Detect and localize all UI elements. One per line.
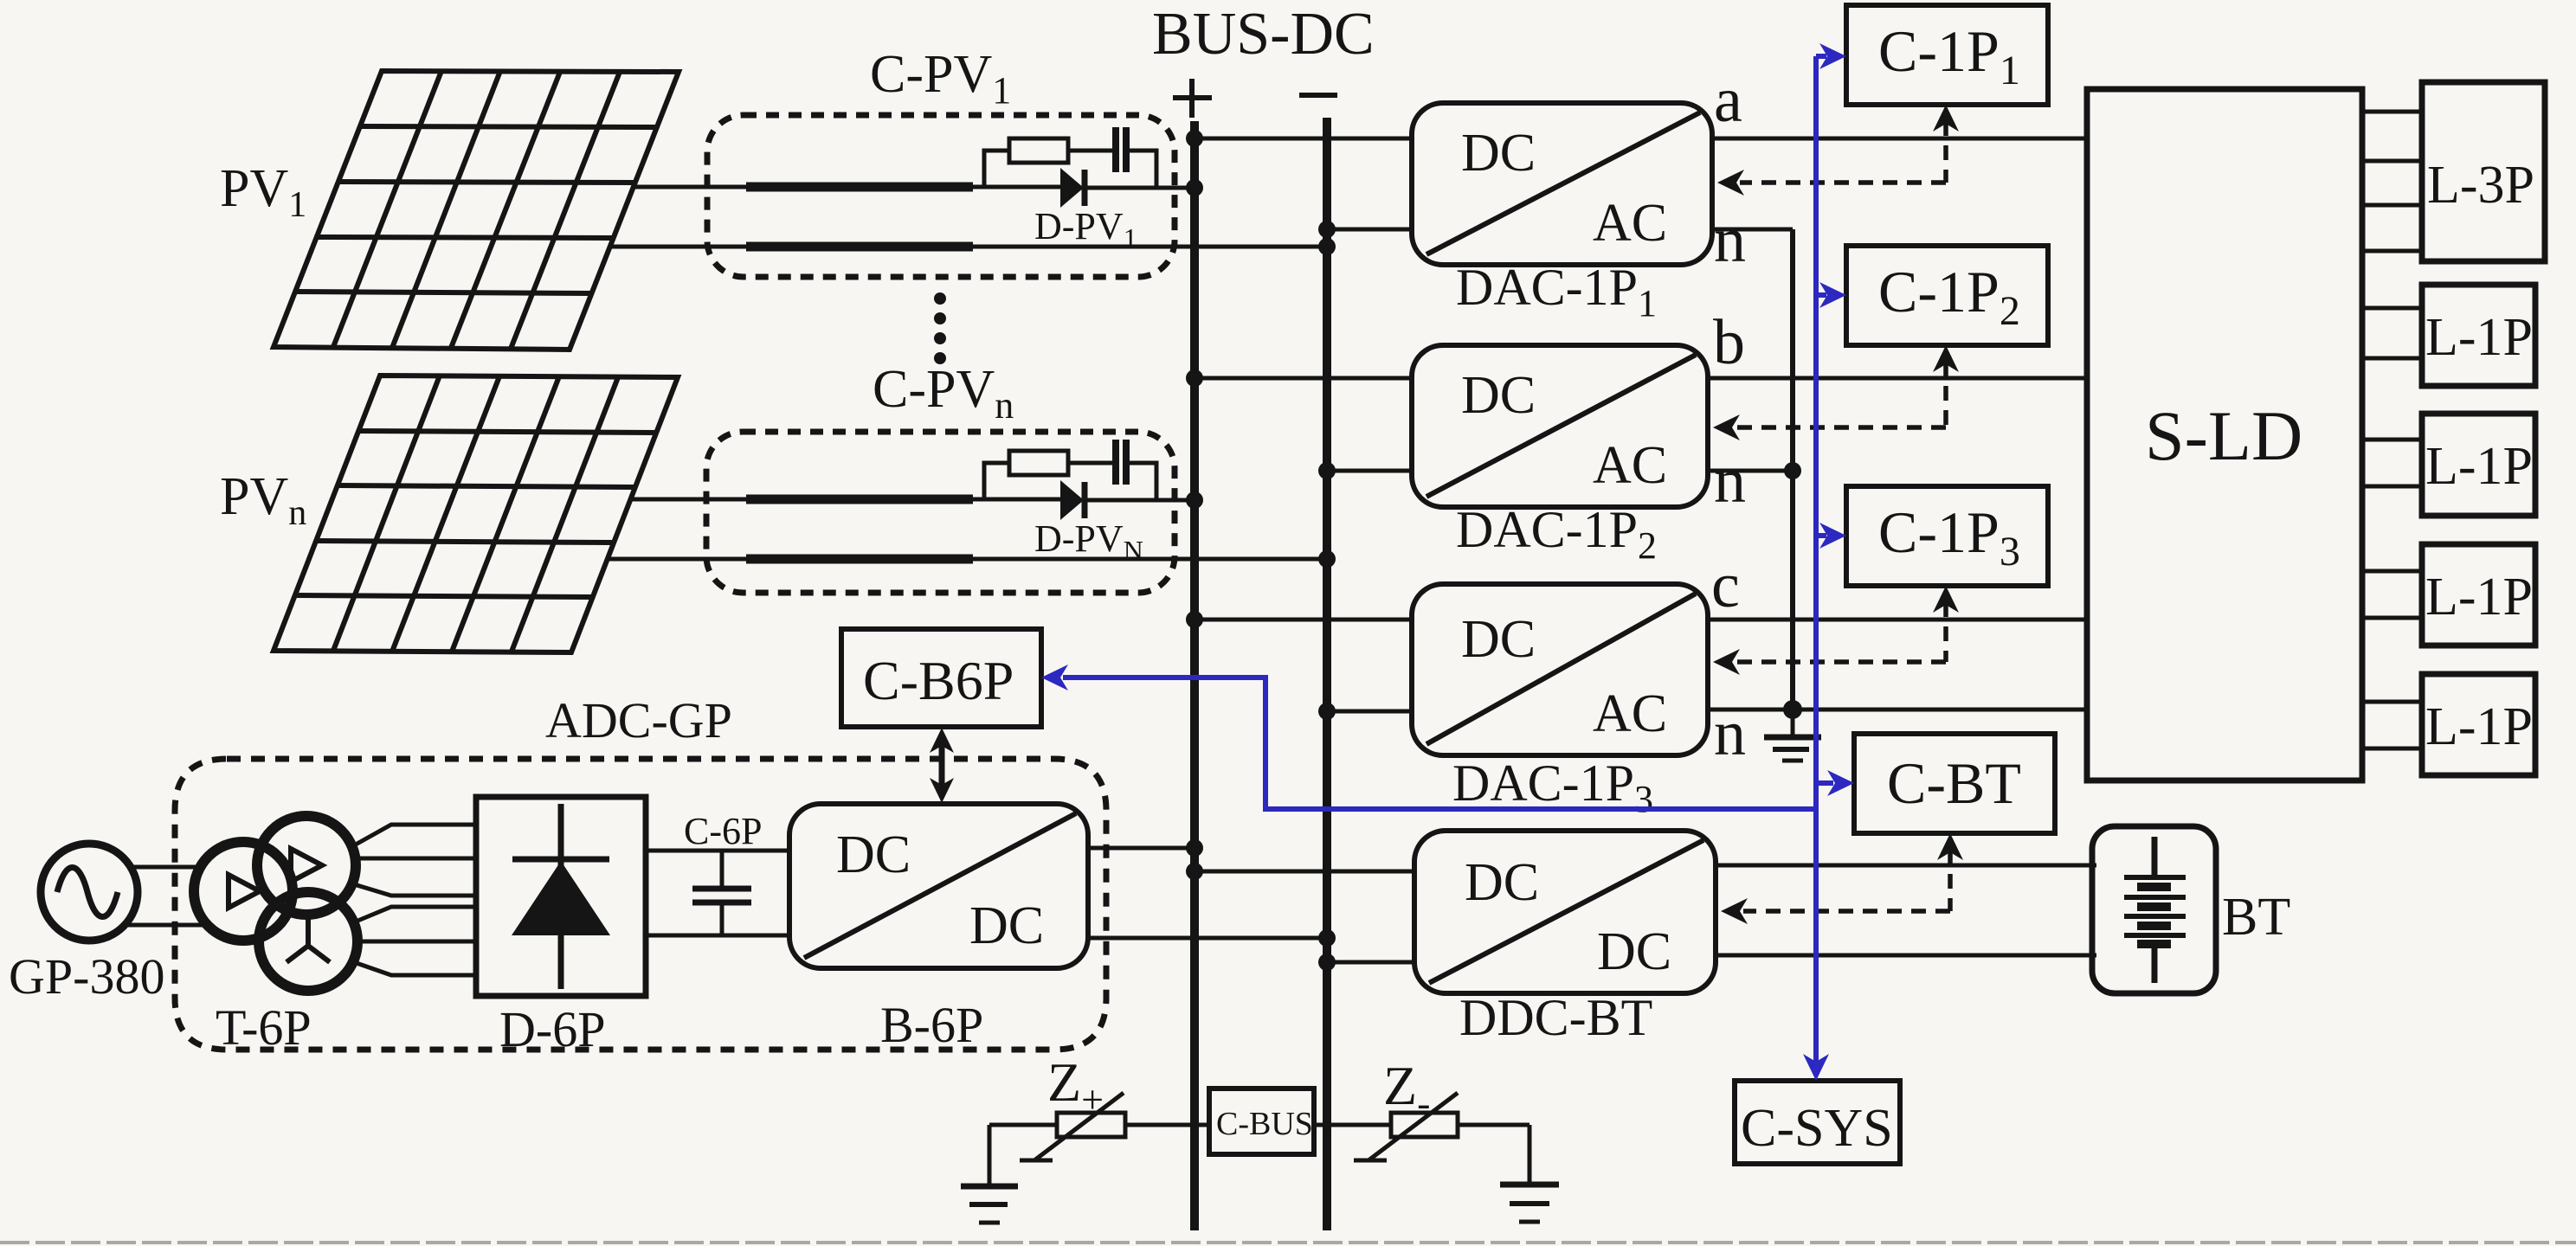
wire T-6P to D-6P line 5 <box>357 940 476 944</box>
arrowhead left into DAC-1P2 <box>1713 414 1740 440</box>
wire + bus to DAC-1P3 / phase c line <box>1195 618 2087 622</box>
svg-text:n: n <box>1714 205 1746 276</box>
svg-text:DC: DC <box>1465 853 1539 912</box>
node - bus DAC-1P1 <box>1318 221 1336 238</box>
svg-text:C-6P: C-6P <box>684 810 762 852</box>
svg-text:GP-380: GP-380 <box>9 948 164 1005</box>
wire S-LD to L-1P(2) stub 2 <box>2362 485 2422 489</box>
svg-text:DAC-1P2: DAC-1P2 <box>1456 501 1657 567</box>
arrowhead left into DAC-1P3 <box>1713 649 1740 675</box>
capacitor snubber Cn <box>1116 440 1126 485</box>
wire PVn cable (thick) positive <box>746 495 973 504</box>
battery BT <box>2092 826 2216 993</box>
bus BUS-DC positive rail <box>1190 121 1199 1230</box>
blue comm arrow into C-B6P <box>1041 665 1068 690</box>
node + bus PVn <box>1186 491 1203 509</box>
wire D-6P to B-6P upper <box>646 849 789 853</box>
wire DAC-1P1 n output to n bus <box>1712 228 1793 232</box>
rectifier D-6P <box>476 797 646 996</box>
svg-text:S-LD: S-LD <box>2145 396 2302 475</box>
svg-text:DDC-BT: DDC-BT <box>1459 989 1652 1046</box>
wire GP-380 to T-6P upper <box>130 865 201 870</box>
svg-text:L-1P: L-1P <box>2425 308 2533 367</box>
wire resistor to capacitor <box>1068 149 1115 153</box>
wire PVn positive lead <box>630 498 746 502</box>
wire B-6P to + bus <box>1088 846 1195 851</box>
wire DDC-BT to BT negative <box>1716 954 2096 958</box>
wire capacitor to diode output (PVn) <box>1126 463 1156 500</box>
wire GP-380 to T-6P lower <box>125 923 206 928</box>
scan noise strip at bottom (decorative) <box>0 1241 2576 1244</box>
node - bus DDC-BT <box>1318 954 1336 971</box>
wire + bus to DAC-1P2 / phase b line <box>1195 376 2087 381</box>
bus neutral n vertical <box>1790 229 1795 710</box>
converter DAC-1P1 <box>1412 103 1712 265</box>
svg-text:C-BUS: C-BUS <box>1216 1106 1313 1142</box>
arrowhead left into DDC-BT <box>1721 898 1748 924</box>
svg-text:AC: AC <box>1593 436 1667 495</box>
arrowhead up into C-1P1 <box>1933 105 1959 132</box>
converter DAC-1P2 <box>1412 345 1708 507</box>
blue comm arrow into C-BT <box>1816 780 1833 786</box>
svg-text:a: a <box>1714 65 1742 136</box>
blue comm bus vertical <box>1813 56 1819 1076</box>
svg-text:DC: DC <box>1597 922 1671 981</box>
wire S-LD to L-1P(4) stub 2 <box>2362 747 2422 751</box>
wire PV1 cable (thick) positive <box>746 183 973 192</box>
blue comm arrow into C-1P1 <box>1816 54 1826 59</box>
blue comm arrow into C-1P2 <box>1816 292 1826 298</box>
wire PV1 positive lead <box>634 185 746 189</box>
wire PV1 cable (thick) negative <box>746 242 973 252</box>
wire S-LD to L-3P stub 3 <box>2362 203 2422 208</box>
svg-text:DC: DC <box>969 896 1044 955</box>
double arrow C-B6P to B-6P <box>930 728 954 803</box>
load L-1P (1) <box>2422 285 2535 386</box>
svg-text:AC: AC <box>1593 684 1667 743</box>
controller box C-SYS <box>1735 1081 1900 1164</box>
svg-text:DC: DC <box>1461 610 1536 669</box>
blue comm arrow down into C-SYS <box>1803 1054 1829 1081</box>
svg-text:DC: DC <box>1461 366 1536 425</box>
bus BUS-DC negative rail <box>1323 118 1331 1230</box>
load L-1P (4) <box>2422 674 2535 775</box>
svg-text:C-B6P: C-B6P <box>863 650 1014 711</box>
load L-1P (2) <box>2422 414 2535 516</box>
wire PV1 negative lead <box>610 245 746 249</box>
wire S-LD to L-1P(3) stub 2 <box>2362 616 2422 620</box>
controller box C-1P2 <box>1846 246 2048 345</box>
node - bus B-6P <box>1318 929 1336 947</box>
node - bus DAC-1P3 <box>1318 703 1336 720</box>
svg-text:B-6P: B-6P <box>880 997 983 1053</box>
wire S-LD to L-1P(1) stub 1 <box>2362 306 2422 311</box>
node n junction DAC-1P3 <box>1783 700 1802 719</box>
wire PVn negative lead <box>607 557 746 562</box>
svg-text:C-SYS: C-SYS <box>1741 1099 1893 1158</box>
wire D-6P to B-6P lower <box>646 934 789 938</box>
arrowhead left into DAC-1P1 <box>1717 170 1744 196</box>
wire B-6P to - bus <box>1088 936 1327 941</box>
wire PVn negative to - bus <box>973 557 1327 562</box>
wire S-LD to L-3P stub 4 <box>2362 249 2422 254</box>
ground (Z+ side) <box>961 1125 1018 1223</box>
PV array PV1 <box>274 71 679 350</box>
wire + bus to DDC-BT <box>1195 870 1414 874</box>
wire snubber branch R1 riser <box>984 151 1009 187</box>
transformer T-6P <box>194 816 357 991</box>
svg-text:DC: DC <box>1461 124 1536 183</box>
svg-text:C-1P3: C-1P3 <box>1878 499 2020 575</box>
wire diode to + bus <box>1156 186 1195 190</box>
PV array PVn <box>274 376 678 652</box>
wire S-LD to L-1P(2) stub 1 <box>2362 438 2422 442</box>
svg-text:BT: BT <box>2222 888 2290 947</box>
svg-text:BUS-DC: BUS-DC <box>1152 1 1375 67</box>
svg-text:ADC-GP: ADC-GP <box>545 692 732 748</box>
wire PVn positive to diode <box>973 498 1060 502</box>
node + bus DAC-1P1 <box>1186 130 1203 147</box>
converter box C-PV1 (dashed) <box>707 115 1175 277</box>
converter DDC-BT <box>1414 831 1716 993</box>
controller box C-BT <box>1854 734 2055 833</box>
controller box C-B6P <box>841 629 1041 727</box>
diode D-PVN <box>1060 480 1156 520</box>
wire PV1 positive to diode <box>973 185 1060 189</box>
svg-text:C-PVn: C-PVn <box>873 360 1014 427</box>
svg-text:c: c <box>1711 550 1740 621</box>
wire bottom balancing line (Z+ / C-BUS / Z-) <box>989 1123 1529 1127</box>
capacitor snubber C1 <box>1116 127 1126 172</box>
node - bus PVn <box>1318 550 1336 568</box>
arrowhead up into C-1P2 <box>1933 345 1959 372</box>
svg-text:C-1P1: C-1P1 <box>1878 18 2020 93</box>
wire T-6P to D-6P line 3 <box>354 884 476 896</box>
wire diode to + bus (PVn) <box>1156 498 1195 503</box>
node + bus DAC-1P3 <box>1186 611 1203 628</box>
node - bus PV1 <box>1318 238 1336 255</box>
wire S-LD to L-1P(4) stub 1 <box>2362 700 2422 704</box>
svg-text:C-1P2: C-1P2 <box>1878 259 2020 334</box>
wire - bus to DAC-1P1 <box>1327 228 1412 232</box>
arrowhead up into C-BT <box>1937 833 1963 860</box>
arrowhead up into C-1P3 <box>1933 586 1959 613</box>
wire DDC-BT to BT positive <box>1716 864 2096 868</box>
dashed control line C-1P2 to DAC-1P2 <box>1736 362 1946 427</box>
load switch box S-LD <box>2087 89 2362 780</box>
svg-text:L-1P: L-1P <box>2425 568 2533 626</box>
svg-text:L-1P: L-1P <box>2425 697 2533 756</box>
wire - bus to DAC-1P3 <box>1327 710 1412 714</box>
node + bus DDC-BT <box>1186 863 1203 880</box>
capacitor C-6P <box>692 851 751 935</box>
dashed control line C-BT to DDC-BT <box>1743 850 1950 911</box>
label + (positive bus) <box>1173 79 1212 118</box>
svg-text:AC: AC <box>1593 194 1667 253</box>
svg-text:n: n <box>1714 446 1746 517</box>
dashed control line C-1P3 to DAC-1P3 <box>1736 602 1946 662</box>
svg-text:L-1P: L-1P <box>2425 437 2533 496</box>
ground (Z- side) <box>1500 1125 1559 1222</box>
resistor snubber R-PVn <box>1009 451 1068 475</box>
wire - bus to DDC-BT <box>1327 960 1414 965</box>
wire PVn cable (thick) negative <box>746 555 973 564</box>
dotted separator between C-PV1 and C-PVn <box>934 292 946 364</box>
node - bus DAC-1P2 <box>1318 462 1336 479</box>
wire DAC-1P2 n output to n bus <box>1708 469 1793 473</box>
load L-3P <box>2422 82 2545 261</box>
wire T-6P to D-6P line 2 <box>357 857 476 861</box>
svg-text:DAC-1P1: DAC-1P1 <box>1456 259 1657 324</box>
controller box C-1P1 <box>1846 5 2048 105</box>
svg-text:L-3P: L-3P <box>2427 156 2534 215</box>
controller box C-1P3 <box>1846 486 2048 586</box>
dashed control line C-1P1 to DAC-1P1 <box>1740 121 1946 183</box>
wire T-6P to D-6P line 6 <box>354 962 476 975</box>
generator GP-380 <box>41 844 138 941</box>
wire + bus to DAC-1P1 / phase a line <box>1195 137 2087 141</box>
group box ADC-GP (dashed) <box>175 759 1106 1050</box>
wire resistor to capacitor (PVn) <box>1068 461 1115 466</box>
svg-text:C-PV1: C-PV1 <box>870 45 1011 112</box>
wire T-6P to D-6P line 1 <box>354 825 476 845</box>
svg-text:n: n <box>1714 698 1746 769</box>
wire - bus to DAC-1P2 <box>1327 469 1412 473</box>
wire S-LD to L-1P(1) stub 2 <box>2362 356 2422 361</box>
wire capacitor to diode output <box>1126 151 1156 188</box>
resistor snubber R-PV1 <box>1009 138 1068 163</box>
node n junction DAC-1P2 <box>1784 462 1801 479</box>
svg-text:DC: DC <box>836 825 911 884</box>
wire snubber branch riser (PVn) <box>984 463 1009 499</box>
node + bus DAC-1P2 <box>1186 369 1203 387</box>
wire S-LD to L-3P stub 2 <box>2362 159 2422 164</box>
ground (neutral) <box>1764 710 1821 761</box>
svg-text:C-BT: C-BT <box>1887 750 2021 816</box>
blue comm arrow into C-1P3 <box>1816 533 1826 538</box>
label - (negative bus) <box>1299 93 1337 98</box>
converter DAC-1P3 <box>1412 584 1708 755</box>
converter box C-PVn (dashed) <box>706 432 1175 593</box>
wire DAC-1P3 n output / n line to S-LD <box>1708 708 2087 712</box>
converter B-6P <box>789 804 1088 968</box>
svg-text:b: b <box>1713 307 1745 378</box>
wire T-6P to D-6P line 4 <box>356 907 476 922</box>
wire S-LD to L-3P stub 1 <box>2362 110 2422 114</box>
varistor Z+ <box>1020 1093 1125 1160</box>
diode D-PV1 <box>1060 168 1156 208</box>
load L-1P (3) <box>2422 544 2535 645</box>
controller box C-BUS <box>1209 1089 1314 1154</box>
varistor Z- <box>1354 1093 1458 1160</box>
wire S-LD to L-1P(3) stub 1 <box>2362 569 2422 574</box>
blue comm line to C-B6P <box>1063 678 1816 809</box>
wire PV1 negative to - bus <box>973 245 1327 249</box>
node + bus B-6P <box>1186 839 1203 857</box>
node + bus PV1 <box>1186 179 1203 196</box>
